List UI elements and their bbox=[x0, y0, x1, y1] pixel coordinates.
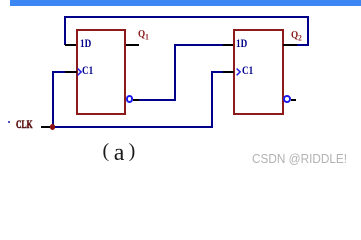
wire: C1 stub U2 (black) bbox=[223, 71, 234, 73]
wire: C1 stub U1 (black) bbox=[65, 71, 77, 73]
wire: top feedback horizontal (Q2 to D1) bbox=[64, 16, 309, 18]
wire: left feedback riser bbox=[64, 16, 66, 46]
flip-flop U2 box bbox=[233, 29, 283, 115]
wire: bubble stub (black) bbox=[133, 99, 139, 101]
wire: CLK lead (black) bbox=[41, 126, 53, 128]
junction dot bbox=[50, 124, 56, 130]
watermark bbox=[252, 151, 347, 166]
wire: right riser up to top wire bbox=[307, 16, 309, 46]
wire: D1 input stub (black) bbox=[65, 44, 77, 46]
label C1 (U2) bbox=[242, 67, 253, 75]
label Q1 bbox=[138, 30, 149, 43]
clock chevron U1 bbox=[77, 68, 82, 76]
wire: Q2bar stub (black) bbox=[291, 99, 296, 101]
inverter bubble U1 bbox=[126, 95, 134, 103]
wire: CLK riser to C1 (U2) bbox=[211, 71, 213, 127]
label 1D (U2) bbox=[236, 40, 247, 48]
top highlight bar bbox=[10, 0, 361, 6]
label 1D (U1) bbox=[80, 40, 91, 48]
wire: D2 input stub (black) bbox=[223, 44, 234, 46]
label CLK bbox=[16, 121, 32, 129]
clock chevron U2 bbox=[236, 68, 241, 76]
wire: Q1 output lead (black) bbox=[126, 44, 140, 46]
wire: C1 lead U1 (blue) bbox=[54, 71, 66, 73]
speck bbox=[8, 121, 10, 123]
wire: Q1bar to riser (blue) bbox=[139, 99, 175, 101]
flip-flop U1 box bbox=[76, 29, 126, 115]
inverter bubble U2 bbox=[283, 95, 291, 103]
wire: CLK rail (blue) bbox=[52, 126, 213, 128]
wire: C1 lead U2 (blue) bbox=[213, 71, 224, 73]
wire: mid riser up bbox=[174, 44, 176, 101]
label C1 (U1) bbox=[82, 67, 93, 75]
wire: Q2 lead blue part bbox=[297, 44, 309, 46]
wire: to D2 (blue) bbox=[176, 44, 223, 46]
label Q2 bbox=[291, 31, 302, 44]
wire: Q2 output lead (black) bbox=[283, 44, 297, 46]
caption (a) bbox=[103, 140, 110, 163]
wire: CLK riser to C1 (U1) bbox=[52, 71, 54, 127]
